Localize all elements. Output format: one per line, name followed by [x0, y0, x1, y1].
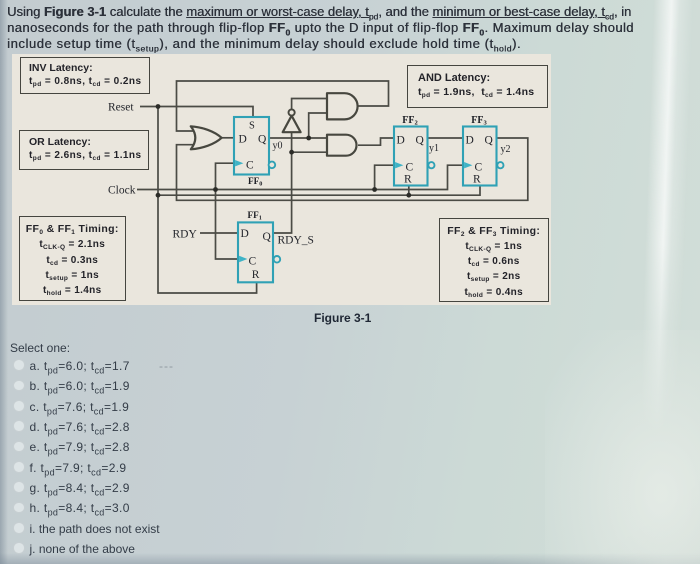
svg-text:Q: Q	[416, 134, 425, 146]
wire Reset vertical rail down to FF1 R	[158, 107, 257, 294]
wire FF2 Q (y1) to FF3 D	[428, 137, 464, 139]
flip-flop FF2 body	[394, 127, 428, 186]
svg-text:C: C	[406, 162, 414, 174]
svg-text:Q: Q	[263, 231, 272, 243]
svg-text:Reset: Reset	[108, 102, 134, 114]
wire node y0 from FF0 Q to AND U3 input 1	[269, 137, 327, 139]
wire AND U3 output to FF2 D	[358, 138, 394, 145]
svg-text:C: C	[246, 160, 254, 172]
svg-text:D: D	[397, 134, 405, 146]
wire Reset branch line to FF2/FF3 R inputs	[158, 186, 480, 196]
svg-text:Q: Q	[485, 134, 494, 146]
flip-flop FF0 body	[234, 117, 269, 175]
svg-text:y0: y0	[273, 141, 283, 152]
wire Clock riser to FF2 C	[375, 165, 394, 189]
FF2 Q' bubble	[428, 162, 434, 168]
figure card	[12, 54, 551, 305]
FF0 Q' bubble	[269, 162, 276, 169]
svg-text:y2: y2	[501, 144, 511, 155]
or-gate U1	[191, 126, 222, 149]
wire y0 riser to AND U2 input 2	[309, 113, 327, 138]
svg-text:FF0: FF0	[248, 176, 262, 188]
FF2 clock chevron	[395, 162, 403, 168]
svg-text:RDY_S: RDY_S	[278, 235, 314, 247]
svg-text:D: D	[241, 228, 249, 240]
svg-text:C: C	[249, 256, 257, 268]
and-gate U2	[327, 93, 358, 119]
wire AND U2 output feedback to OR U1 input 1	[177, 81, 389, 131]
wire Clock line to FF3 C	[137, 165, 463, 189]
wire Reset to FF0 S input	[140, 107, 253, 118]
INV latency note box	[20, 57, 150, 95]
svg-text:R: R	[252, 269, 260, 281]
svg-text:C: C	[475, 162, 483, 174]
svg-text:FF3: FF3	[471, 115, 487, 127]
svg-text:RDY: RDY	[173, 229, 198, 241]
wire Clock riser to FF0 C and FF1 C	[216, 163, 239, 259]
wire inverter U4 output to AND U2 input 1	[292, 99, 327, 110]
junction RDY_S node	[289, 150, 294, 155]
FF3 Q' bubble	[497, 162, 503, 168]
junction y0 node	[306, 136, 311, 141]
flip-flop FF1 body	[238, 222, 273, 282]
junction Clock/FF2 riser	[372, 187, 377, 192]
FF3 clock chevron	[464, 162, 472, 168]
wire node y2 feedback from FF3 Q to OR U1 input 2	[177, 138, 528, 200]
svg-text:y1: y1	[429, 143, 439, 154]
FF1 clock chevron	[239, 256, 247, 262]
and-gate U3	[327, 135, 357, 156]
svg-text:Clock: Clock	[108, 185, 136, 197]
junction Reset line/FF2 R stub	[406, 193, 411, 198]
FF2 & FF3 timing note box	[439, 218, 549, 303]
inverter U4 triangle	[283, 116, 301, 133]
flip-flop FF3 body	[463, 127, 497, 186]
AND latency note box	[407, 65, 548, 108]
inverter U4 bubble	[289, 109, 295, 115]
wire RDY_S branch to AND U3 input 2	[292, 151, 327, 153]
wire FF2 R stub	[408, 186, 410, 196]
junction Reset rail/line2	[156, 193, 161, 198]
wire node RDY_S from FF1 Q up to inverter U4 input	[273, 132, 292, 233]
FF1 Q' bubble	[274, 256, 281, 263]
junction Clock/FF0-FF1 riser	[213, 187, 218, 192]
svg-text:FF1: FF1	[248, 210, 262, 222]
svg-text:S: S	[249, 121, 255, 132]
svg-text:R: R	[404, 174, 412, 186]
wire OR U1 output to FF0 D	[222, 137, 234, 139]
svg-text:FF2: FF2	[402, 115, 418, 127]
OR latency note box	[19, 130, 149, 170]
svg-text:D: D	[466, 134, 474, 146]
svg-text:Q: Q	[258, 133, 267, 145]
FF0 & FF1 timing note box	[19, 216, 127, 301]
svg-text:R: R	[473, 174, 481, 186]
FF0 clock chevron	[235, 160, 243, 166]
wire RDY input to FF1 D	[200, 232, 238, 234]
svg-text:D: D	[239, 133, 247, 145]
junction Reset/S-branch	[156, 104, 161, 109]
